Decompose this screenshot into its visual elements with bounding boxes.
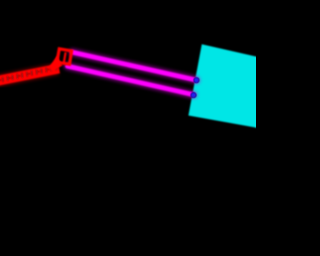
chain glow xyxy=(0,69,58,81)
chain band xyxy=(0,65,59,84)
cable lower glow xyxy=(68,66,194,95)
cable upper glow xyxy=(73,52,197,80)
cable upper xyxy=(73,52,197,80)
buckle box xyxy=(57,49,72,65)
cable lower xyxy=(68,66,194,95)
anchor dot upper xyxy=(194,78,199,83)
buckle bar xyxy=(64,52,66,62)
cyan panel xyxy=(188,44,272,128)
junction blob xyxy=(49,56,63,72)
anchor dot lower xyxy=(191,93,196,98)
